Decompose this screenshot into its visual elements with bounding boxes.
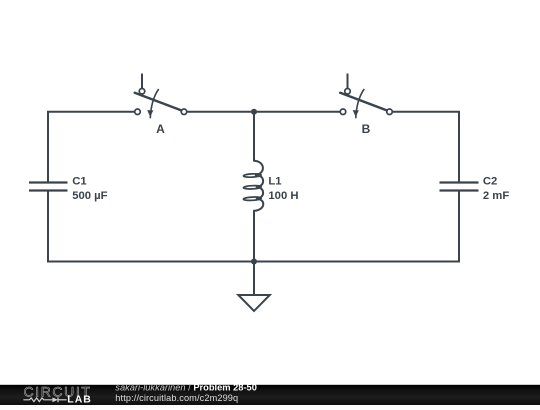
switch B actuation arc arrow bbox=[356, 89, 364, 118]
CircuitLab logo diode triangle bbox=[52, 397, 58, 402]
node top junction at L1/top wire bbox=[251, 109, 257, 115]
C1 top plate bbox=[29, 181, 68, 183]
switch B throw stub wire bbox=[347, 74, 349, 89]
ground stub wire bbox=[253, 262, 255, 296]
svg-text:sakari-lukkarinen / Problem 28: sakari-lukkarinen / Problem 28-50 bbox=[115, 383, 257, 393]
ground triangle bbox=[238, 295, 269, 311]
L1 coil left loop 3 bbox=[243, 197, 261, 201]
wire center upper (top node down to L1) bbox=[253, 112, 255, 161]
switch B right terminal bbox=[387, 109, 393, 115]
inductor L1 bbox=[243, 161, 298, 211]
wire top-right from switch B right terminal to right rail corner and down to C2 top plate bbox=[393, 112, 459, 182]
switch A actuation arc arrow bbox=[150, 89, 158, 118]
footer bar bbox=[0, 385, 540, 405]
switch B top throw terminal bbox=[345, 89, 351, 95]
L1 coil left loop 1 bbox=[243, 173, 261, 177]
C1 bottom plate bbox=[29, 189, 68, 191]
ground bbox=[238, 262, 269, 312]
svg-text:C1: C1 bbox=[72, 176, 86, 188]
switch A left terminal bbox=[135, 109, 141, 115]
wire top-left from switch A left terminal to left rail corner and down to C1 top plate bbox=[48, 112, 134, 182]
switch B left terminal bbox=[340, 109, 346, 115]
svg-text:B: B bbox=[362, 122, 371, 136]
switch A throw stub wire bbox=[141, 74, 143, 89]
wire center lower (L1 down to bottom node) bbox=[253, 211, 255, 262]
switch A top throw terminal bbox=[139, 89, 145, 95]
wire top-middle from switch A right terminal to switch B left terminal bbox=[187, 111, 339, 113]
capacitor C2 bbox=[440, 176, 510, 202]
CircuitLab logo doodle wire with resistor and diode bbox=[23, 397, 66, 402]
svg-text:100 H: 100 H bbox=[268, 190, 298, 202]
C2 bottom plate bbox=[440, 189, 479, 191]
switch B (SPDT) bbox=[340, 74, 392, 137]
switch A lever bbox=[135, 93, 182, 111]
svg-text:C2: C2 bbox=[483, 176, 497, 188]
svg-text:A: A bbox=[156, 122, 165, 136]
wire left rail lower from C1 bottom plate through bottom-left corner, bottom rail, bottom-right corner up to C2 bottom plate bbox=[48, 192, 459, 262]
svg-text:500 µF: 500 µF bbox=[72, 190, 107, 202]
switch B lever bbox=[340, 93, 387, 111]
switch A right terminal bbox=[181, 109, 187, 115]
switch A (SPDT) bbox=[135, 74, 187, 137]
L1 coil bumps bbox=[254, 161, 263, 211]
svg-text:2 mF: 2 mF bbox=[483, 190, 509, 202]
node bottom junction at L1/bottom wire bbox=[251, 259, 257, 265]
svg-text:L1: L1 bbox=[268, 176, 281, 188]
svg-text:http://circuitlab.com/c2m299q: http://circuitlab.com/c2m299q bbox=[115, 393, 238, 403]
L1 coil left loop 2 bbox=[243, 185, 261, 189]
capacitor C1 bbox=[29, 176, 108, 202]
C2 top plate bbox=[440, 181, 479, 183]
svg-text:LAB: LAB bbox=[67, 393, 92, 405]
